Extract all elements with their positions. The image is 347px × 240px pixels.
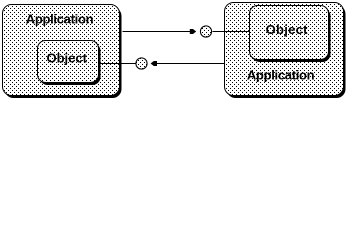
svg-text:Application: Application [26, 12, 94, 27]
svg-text:Application: Application [247, 68, 315, 83]
svg-text:Object: Object [266, 22, 309, 37]
svg-text:Object: Object [46, 51, 87, 66]
